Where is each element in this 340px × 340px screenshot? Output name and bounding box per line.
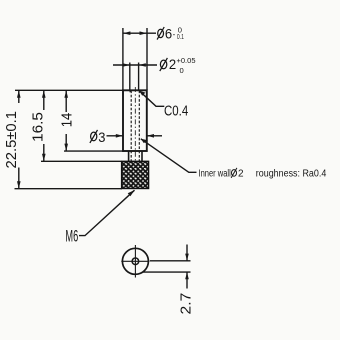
- bottom view cross vertical: [134, 245, 136, 278]
- arrow dia2 right: [139, 63, 146, 67]
- svg-text:22.5±0.1: 22.5±0.1: [3, 111, 20, 169]
- svg-text:14: 14: [58, 113, 75, 128]
- top extension line left (part top): [15, 89, 123, 91]
- extension line 16.5: [41, 160, 122, 162]
- body outline dia6 cylinder: [123, 90, 147, 151]
- svg-text:3: 3: [98, 129, 105, 145]
- arrow dia6 left: [123, 31, 130, 35]
- svg-text:M6: M6: [65, 226, 78, 245]
- bore hidden line left: [130, 91, 132, 162]
- label dia3 symbol: [90, 130, 98, 143]
- neck outline: [129, 151, 142, 161]
- 2.7 extension bottom: [143, 271, 191, 273]
- 2.7 extension top: [150, 260, 191, 262]
- label dia6 symbol: [157, 27, 164, 40]
- bottom view outer circle: [122, 248, 148, 274]
- svg-text:2.7: 2.7: [177, 293, 194, 315]
- arrow dia2 left: [123, 63, 130, 67]
- dimension line 16.5: [43, 90, 45, 110]
- C0.4 leader: [139, 91, 164, 107]
- dia3 dimension left segment: [107, 135, 124, 137]
- svg-text:Inner wall: Inner wall: [199, 168, 231, 179]
- bottom extension line (part bottom): [15, 188, 123, 190]
- svg-text:0: 0: [180, 66, 184, 75]
- M6 leader: [79, 190, 135, 235]
- extension line dia6 right: [146, 28, 148, 90]
- bottom view cross horizontal: [121, 260, 149, 262]
- svg-text:C0.4: C0.4: [164, 102, 188, 119]
- extension line dia2 right: [138, 63, 140, 90]
- inner wall leader: [141, 139, 197, 173]
- label dia2 symbol: [160, 58, 168, 71]
- extension line dia6 left: [122, 28, 124, 90]
- bore hidden line right: [138, 91, 140, 162]
- dia3 dimension right segment: [147, 135, 162, 137]
- arrow dia6 right: [140, 31, 148, 35]
- svg-text:-: -: [173, 30, 176, 39]
- svg-text:6: 6: [165, 25, 172, 41]
- bottom view inner circle: [132, 258, 139, 265]
- dimension line dia2: [113, 64, 157, 66]
- svg-text:2: 2: [238, 168, 244, 179]
- centerline: [134, 87, 136, 163]
- dimension line 22.5: [18, 90, 20, 103]
- svg-text:0.1: 0.1: [177, 32, 184, 41]
- svg-text:roughness: Ra0.4: roughness: Ra0.4: [256, 168, 327, 179]
- svg-text:+0.05: +0.05: [177, 56, 196, 65]
- chamfer ticks: [130, 90, 141, 92]
- svg-text:16.5: 16.5: [30, 112, 47, 142]
- dimension line dia6: [123, 32, 156, 34]
- extension line dia2 left: [129, 63, 131, 90]
- svg-text:2: 2: [169, 56, 176, 72]
- 2.7 dimension line: [186, 245, 188, 261]
- knurl threaded section M6: [122, 161, 149, 188]
- dimension line 14: [65, 90, 67, 112]
- extension line 14: [64, 150, 125, 152]
